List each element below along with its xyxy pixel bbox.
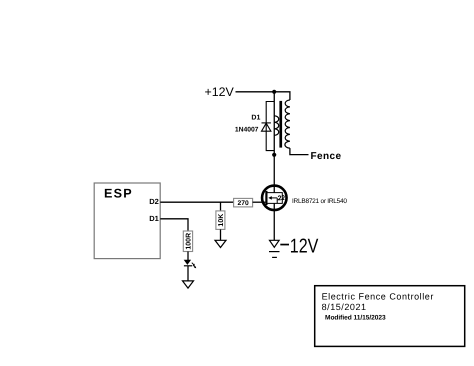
resistor R3 100R — [183, 231, 192, 252]
svg-text:+12V: +12V — [205, 85, 235, 99]
transistor Q1 circle — [262, 186, 287, 211]
transistor Q1 pin numbers — [278, 196, 281, 200]
diode D1 symbol — [262, 123, 271, 131]
svg-text:D2: D2 — [149, 197, 159, 206]
wire drain — [273, 155, 275, 193]
svg-text:12V: 12V — [290, 236, 319, 258]
svg-text:Fence: Fence — [311, 151, 342, 162]
resistor R2 10K — [216, 211, 225, 230]
wire secondary bottom to Fence — [290, 148, 309, 155]
transistor Q1 source arrow — [268, 196, 277, 203]
wire junction to secondary top — [274, 92, 290, 100]
transformer T1 primary winding — [274, 116, 279, 136]
ground earth symbol — [269, 240, 280, 257]
node -12V label — [280, 236, 319, 258]
resistor R1 270 — [234, 198, 253, 207]
svg-text:270: 270 — [238, 200, 249, 207]
svg-text:8/15/2021: 8/15/2021 — [322, 302, 367, 312]
svg-text:ESP: ESP — [104, 186, 133, 200]
IC U1 ESP box — [94, 183, 160, 259]
transistor Q1 channel box — [267, 193, 282, 204]
title block border — [315, 286, 465, 347]
wire LED to ground — [187, 266, 189, 281]
LED D2 symbol — [184, 260, 197, 269]
transformer T1 core — [279, 101, 282, 148]
svg-text:100R: 100R — [185, 233, 192, 250]
wire 10K to ground — [220, 229, 222, 240]
junction top node — [272, 90, 276, 94]
transformer T1 primary wire — [273, 92, 275, 155]
svg-text:D1: D1 — [251, 114, 260, 121]
wire tee to 10K — [220, 202, 222, 211]
transformer T1 secondary winding — [285, 100, 290, 148]
ground triangle at 10K — [215, 240, 226, 247]
transistor Q1 gate bar — [265, 191, 267, 205]
wire diode bracket — [266, 102, 274, 151]
wire source to ground — [273, 203, 275, 240]
wire 270 to gate — [253, 201, 266, 203]
wire D1 to 100R — [160, 219, 188, 231]
junction bottom node — [272, 153, 276, 157]
svg-text:IRLB8721 or IRL540: IRLB8721 or IRL540 — [292, 198, 347, 205]
wire D2 to R 270 — [160, 201, 233, 203]
wire 100R to LED — [187, 252, 189, 261]
svg-text:Electric Fence Controller: Electric Fence Controller — [322, 292, 434, 302]
svg-text:D1: D1 — [149, 214, 159, 223]
svg-text:1N4007: 1N4007 — [235, 127, 259, 134]
svg-text:10K: 10K — [218, 214, 225, 227]
wire +12V to top junction — [236, 91, 275, 93]
ground triangle at LED — [183, 281, 194, 288]
svg-text:Modified 11/15/2023: Modified 11/15/2023 — [325, 315, 386, 322]
